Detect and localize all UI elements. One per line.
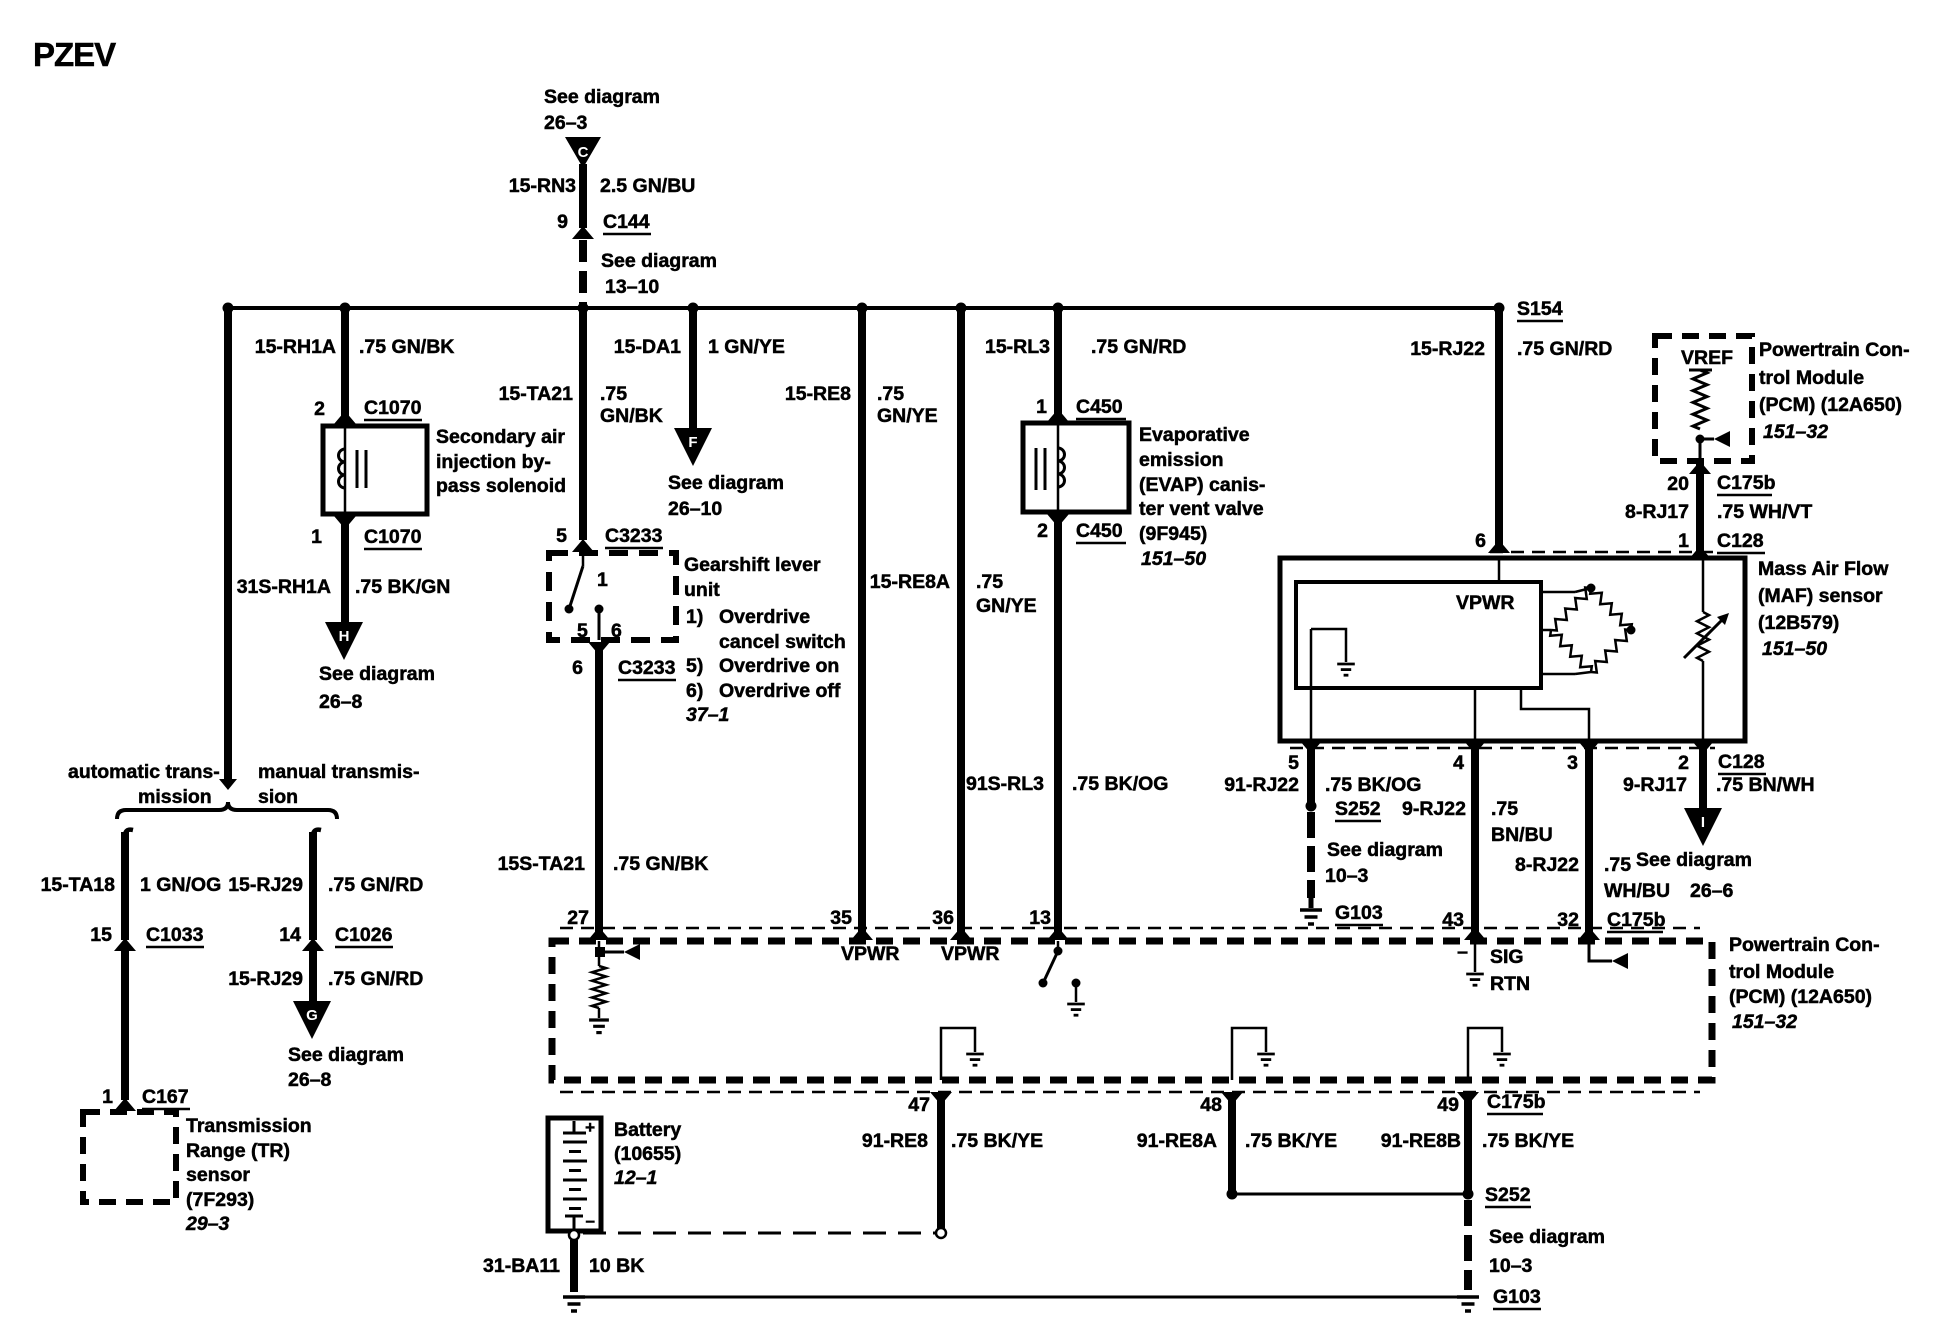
battery terminal node: [569, 1230, 579, 1240]
svg-text:C450: C450: [1076, 396, 1123, 418]
MAF pin 3 arrow: [1578, 741, 1600, 754]
svg-text:C128: C128: [1717, 530, 1764, 552]
pin 49 arrow: [1457, 1092, 1479, 1105]
svg-text:9-RJ22: 9-RJ22: [1402, 798, 1466, 820]
wire 8-RJ22: [1585, 748, 1593, 940]
MAF sensor box: [1280, 558, 1745, 741]
svg-text:S252: S252: [1485, 1184, 1531, 1206]
PCM pin49 loop: [1468, 1028, 1502, 1080]
svg-text:31S-RH1A: 31S-RH1A: [237, 576, 331, 598]
svg-text:1): 1): [686, 606, 703, 628]
PCM pin27 wire: [598, 941, 601, 966]
svg-text:14: 14: [279, 924, 301, 946]
svg-text:10 BK: 10 BK: [589, 1255, 644, 1277]
svg-text:.75 GN/RD: .75 GN/RD: [328, 968, 423, 990]
svg-text:26–3: 26–3: [544, 112, 588, 134]
svg-text:trol Module: trol Module: [1729, 961, 1834, 983]
svg-text:C1070: C1070: [364, 526, 422, 548]
svg-text:36: 36: [932, 907, 954, 929]
svg-text:See diagram: See diagram: [1636, 849, 1752, 871]
svg-text:1: 1: [311, 526, 322, 548]
svg-text:.75: .75: [1604, 854, 1631, 876]
connector arrow F: [674, 428, 712, 466]
wire S252 to G103 dashed: [1464, 1200, 1472, 1290]
battery plus terminal: [573, 1121, 576, 1133]
connector C167 arrow: [114, 1098, 136, 1111]
svg-text:.75: .75: [877, 383, 904, 405]
svg-text:injection by-: injection by-: [436, 451, 551, 473]
svg-text:BN/BU: BN/BU: [1491, 824, 1553, 846]
svg-text:6: 6: [611, 620, 622, 642]
wire 9-RJ22: [1471, 748, 1479, 940]
svg-text:–: –: [1457, 941, 1468, 963]
svg-text:I: I: [1701, 814, 1705, 831]
svg-text:pass solenoid: pass solenoid: [436, 475, 566, 497]
svg-text:Powertrain Con-: Powertrain Con-: [1729, 934, 1880, 956]
connector C144 arrow: [572, 226, 594, 239]
bus junction x=693: [688, 303, 699, 314]
svg-text:VPWR: VPWR: [941, 943, 1000, 965]
svg-text:31-BA11: 31-BA11: [483, 1255, 560, 1277]
gearshift switch lever: [570, 566, 583, 606]
svg-text:8-RJ17: 8-RJ17: [1625, 501, 1689, 523]
svg-text:(PCM) (12A650): (PCM) (12A650): [1759, 394, 1902, 416]
EVAP valve wire: [1057, 423, 1060, 512]
svg-text:37–1: 37–1: [686, 704, 729, 726]
pin 13 arrow: [1047, 927, 1069, 940]
svg-text:.75 BK/OG: .75 BK/OG: [1072, 773, 1168, 795]
svg-text:15-RH1A: 15-RH1A: [255, 336, 336, 358]
pin 27 arrow: [588, 927, 610, 940]
svg-text:151–32: 151–32: [1763, 421, 1828, 443]
svg-text:5: 5: [1288, 752, 1299, 774]
solenoid S1 wire: [344, 426, 347, 514]
svg-text:29–3: 29–3: [185, 1213, 230, 1235]
svg-text:S154: S154: [1517, 298, 1563, 320]
solenoid S1 core: [356, 450, 359, 488]
svg-text:5): 5): [686, 655, 703, 677]
svg-text:91-RE8: 91-RE8: [862, 1130, 928, 1152]
MAF pin3 wire inside: [1521, 688, 1589, 741]
MAF bridge bottom-left: [1550, 630, 1592, 672]
svg-text:15S-TA21: 15S-TA21: [498, 853, 586, 875]
svg-text:.75 GN/BK: .75 GN/BK: [613, 853, 708, 875]
connector C175b arrow: [1689, 461, 1711, 474]
MAF pin5 wire inside: [1310, 629, 1313, 741]
connector C450 arrow: [1047, 409, 1069, 422]
wire 15-RJ29: [309, 832, 317, 940]
svg-text:G: G: [306, 1007, 318, 1024]
PCM connector dashes top: [560, 927, 1700, 930]
gearshift pin6 wire: [598, 609, 601, 640]
svg-text:Transmission: Transmission: [186, 1115, 312, 1137]
pin 36 arrow: [950, 927, 972, 940]
svg-text:See diagram: See diagram: [1327, 839, 1443, 861]
MAF bridge dot right: [1627, 626, 1636, 635]
svg-text:.75 BN/WH: .75 BN/WH: [1716, 774, 1815, 796]
svg-text:49: 49: [1437, 1094, 1459, 1116]
svg-text:automatic trans-: automatic trans-: [68, 761, 220, 783]
svg-text:GN/BK: GN/BK: [600, 405, 663, 427]
battery box: [548, 1118, 601, 1231]
pin 43 arrow: [1464, 927, 1486, 940]
MAF bridge dot top: [1587, 584, 1596, 593]
svg-text:H: H: [339, 628, 350, 645]
svg-text:(7F293): (7F293): [186, 1189, 254, 1211]
svg-text:5: 5: [556, 525, 567, 547]
svg-text:C1026: C1026: [335, 924, 393, 946]
svg-text:C450: C450: [1076, 520, 1123, 542]
EVAP vent valve box: [1023, 423, 1129, 512]
svg-text:151–50: 151–50: [1762, 638, 1827, 660]
svg-text:C3233: C3233: [605, 525, 663, 547]
svg-text:15-RE8A: 15-RE8A: [870, 571, 950, 593]
gearshift contact 6: [595, 605, 604, 614]
VREF wire to pin 20: [1699, 439, 1702, 461]
bus junction x=345: [340, 303, 351, 314]
svg-text:3: 3: [1567, 752, 1578, 774]
svg-text:C3233: C3233: [618, 657, 676, 679]
wire 91-RE8A: [1228, 1092, 1236, 1192]
connector C triangle: [565, 137, 601, 168]
svg-text:manual transmis-: manual transmis-: [258, 761, 419, 783]
svg-text:1 GN/OG: 1 GN/OG: [140, 874, 221, 896]
PCM pin27 node: [595, 947, 605, 957]
svg-text:S252: S252: [1335, 798, 1381, 820]
MAF internal gnd wire: [1311, 629, 1346, 662]
PCM connector dashes bottom: [560, 1091, 1700, 1094]
svg-text:26–10: 26–10: [668, 498, 722, 520]
svg-text:See diagram: See diagram: [319, 663, 435, 685]
wire 15-RJ29 hook: [313, 830, 321, 838]
connector C128 dashed line: [1490, 551, 1715, 554]
svg-text:RTN: RTN: [1490, 973, 1530, 995]
svg-text:F: F: [688, 434, 697, 451]
svg-text:See diagram: See diagram: [288, 1044, 404, 1066]
MAF pin 5 arrow: [1300, 741, 1322, 754]
ground G103 (MAF): [1309, 898, 1314, 908]
svg-text:26–8: 26–8: [319, 691, 363, 713]
wire 8-RJ17: [1696, 463, 1704, 556]
MAF VPWR box: [1296, 582, 1541, 688]
pin 32 arrow: [1578, 927, 1600, 940]
ground bus wire: [585, 1296, 1457, 1299]
svg-text:13: 13: [1029, 907, 1051, 929]
wire 15-RE8A: [957, 308, 965, 940]
svg-text:2: 2: [1037, 520, 1048, 542]
MAF var resistor arrow: [1684, 617, 1725, 658]
bus wire: [228, 306, 1499, 310]
wire 15-RN3 (C to C144): [579, 164, 587, 228]
gearshift lever unit box: [549, 553, 676, 640]
svg-text:.75 GN/RD: .75 GN/RD: [1517, 338, 1612, 360]
wire 15-TA18 feed: [224, 308, 232, 779]
svg-text:C1070: C1070: [364, 397, 422, 419]
svg-text:13–10: 13–10: [605, 276, 659, 298]
svg-text:C128: C128: [1718, 751, 1765, 773]
svg-text:15-RJ29: 15-RJ29: [228, 968, 303, 990]
svg-text:6: 6: [1475, 530, 1486, 552]
svg-text:9: 9: [557, 211, 568, 233]
battery cells: [563, 1141, 587, 1144]
svg-text:sion: sion: [258, 786, 298, 808]
bus junction x=961: [956, 303, 967, 314]
svg-text:10–3: 10–3: [1325, 865, 1369, 887]
ground battery: [563, 1297, 585, 1311]
solenoid S1 box: [323, 426, 427, 514]
svg-text:91-RJ22: 91-RJ22: [1224, 774, 1299, 796]
wire 91-RJ22: [1307, 748, 1315, 804]
svg-text:151–50: 151–50: [1141, 548, 1206, 570]
svg-text:C175b: C175b: [1487, 1091, 1546, 1113]
connector C3233 arrow low: [588, 642, 610, 655]
svg-text:.75 GN/RD: .75 GN/RD: [1091, 336, 1186, 358]
PCM pin27 gnd: [598, 1008, 601, 1018]
wire 15-RH1A: [341, 308, 349, 424]
bus junction x=862: [857, 303, 868, 314]
svg-text:Powertrain Con-: Powertrain Con-: [1759, 339, 1910, 361]
VREF node dot: [1696, 435, 1705, 444]
wire 91-RE8B: [1464, 1092, 1472, 1192]
MAF pin2 wire inside: [1702, 558, 1705, 612]
bus junction x=1499: [1494, 303, 1505, 314]
svg-text:cancel switch: cancel switch: [719, 631, 846, 653]
svg-text:20: 20: [1667, 473, 1689, 495]
svg-text:2.5 GN/BU: 2.5 GN/BU: [600, 175, 695, 197]
gearshift switch stub: [582, 553, 585, 566]
bus junction x=1058: [1053, 303, 1064, 314]
wire 15-RE8: [858, 308, 866, 940]
svg-text:C175b: C175b: [1717, 472, 1776, 494]
svg-text:.75 BK/GN: .75 BK/GN: [355, 576, 450, 598]
svg-text:27: 27: [567, 907, 589, 929]
PCM pin13 stub: [1057, 941, 1060, 950]
wire 15-RJ29 lower: [309, 950, 317, 1001]
connector arrow I: [1684, 808, 1722, 846]
svg-text:WH/BU: WH/BU: [1604, 880, 1670, 902]
MAF bridge bottom-right: [1591, 630, 1631, 673]
VREF resistor: [1693, 370, 1707, 429]
wire 15-TA18: [121, 832, 129, 940]
svg-text:12–1: 12–1: [614, 1167, 657, 1189]
svg-text:Mass Air Flow: Mass Air Flow: [1758, 558, 1889, 580]
svg-text:91-RE8B: 91-RE8B: [1381, 1130, 1461, 1152]
svg-text:35: 35: [830, 907, 852, 929]
svg-text:.75: .75: [976, 571, 1003, 593]
PCM VREF box: [1655, 336, 1752, 461]
svg-text:1: 1: [1036, 396, 1047, 418]
svg-text:C: C: [578, 144, 589, 161]
svg-text:C167: C167: [142, 1086, 189, 1108]
svg-text:See diagram: See diagram: [544, 86, 660, 108]
PCM pin13 contact: [1072, 979, 1081, 988]
PCM pin47 loop: [941, 1028, 975, 1080]
svg-text:1: 1: [102, 1086, 113, 1108]
connector C1070 arrow low: [334, 516, 356, 529]
MAF bridge top-right: [1590, 588, 1632, 630]
pin 35 arrow: [851, 927, 873, 940]
svg-text:.75 WH/VT: .75 WH/VT: [1717, 501, 1812, 523]
wire 9-RJ17: [1699, 748, 1707, 808]
svg-text:5: 5: [577, 620, 588, 642]
svg-text:15-RN3: 15-RN3: [509, 175, 576, 197]
connector arrow G: [293, 1001, 331, 1039]
svg-text:8-RJ22: 8-RJ22: [1515, 854, 1579, 876]
bus junction x=228: [223, 303, 234, 314]
svg-text:10–3: 10–3: [1489, 1255, 1533, 1277]
svg-text:mission: mission: [138, 786, 212, 808]
svg-text:(EVAP) canis-: (EVAP) canis-: [1139, 474, 1265, 496]
svg-text:Overdrive off: Overdrive off: [719, 680, 841, 702]
MAF pin6 wire inside: [1498, 558, 1501, 582]
svg-text:Secondary air: Secondary air: [436, 426, 565, 448]
svg-text:SIG: SIG: [1490, 946, 1524, 968]
svg-text:47: 47: [908, 1094, 930, 1116]
connector arrow H: [325, 622, 363, 660]
svg-text:15: 15: [90, 924, 112, 946]
pin 6 arrow: [1488, 540, 1510, 553]
svg-text:emission: emission: [1139, 449, 1224, 471]
svg-text:VPWR: VPWR: [841, 943, 900, 965]
svg-text:15-DA1: 15-DA1: [614, 336, 681, 358]
MAF bottom connector dashes: [1290, 747, 1715, 750]
svg-text:(MAF) sensor: (MAF) sensor: [1758, 585, 1883, 607]
svg-text:151–32: 151–32: [1732, 1011, 1797, 1033]
wire 31S-RH1A: [341, 516, 349, 622]
svg-text:15-TA18: 15-TA18: [41, 874, 116, 896]
svg-text:.75 BK/YE: .75 BK/YE: [1482, 1130, 1574, 1152]
MAF pin 4 arrow: [1464, 741, 1486, 754]
PCM pin13 switch lever: [1044, 951, 1058, 981]
svg-text:GN/YE: GN/YE: [877, 405, 938, 427]
svg-text:GN/YE: GN/YE: [976, 595, 1037, 617]
battery minus terminal: [565, 1215, 583, 1218]
svg-text:15-RE8: 15-RE8: [785, 383, 851, 405]
svg-text:Evaporative: Evaporative: [1139, 424, 1250, 446]
wire 15-RJ22: [1495, 308, 1503, 553]
MAF pin 2 arrow: [1692, 741, 1714, 754]
svg-text:VPWR: VPWR: [1456, 592, 1515, 614]
wire 15-TA21: [579, 308, 587, 540]
pin 48 arrow: [1221, 1092, 1243, 1105]
svg-text:4: 4: [1453, 752, 1464, 774]
svg-text:See diagram: See diagram: [601, 250, 717, 272]
VREF resistor top bar: [1689, 369, 1712, 372]
connector C1070 arrow: [334, 411, 356, 424]
svg-text:(12B579): (12B579): [1758, 612, 1839, 634]
VREF signal arrow: [1700, 438, 1714, 441]
wire C144 to bus (dashed): [579, 240, 587, 308]
svg-text:(9F945): (9F945): [1139, 523, 1207, 545]
PCM pin48 loop: [1232, 1028, 1266, 1080]
svg-text:91-RE8A: 91-RE8A: [1137, 1130, 1217, 1152]
wire S252 link: [1232, 1193, 1468, 1196]
wire 15S-TA21: [595, 642, 603, 940]
svg-text:ter vent valve: ter vent valve: [1139, 498, 1264, 520]
svg-text:26–6: 26–6: [1690, 880, 1734, 902]
wire 15-TA18 lower: [121, 950, 129, 1100]
svg-text:26–8: 26–8: [288, 1069, 332, 1091]
wire 15-DA1: [689, 308, 697, 428]
wire 15-TA18 hook: [125, 830, 133, 838]
PCM box: [552, 941, 1712, 1080]
svg-text:See diagram: See diagram: [1489, 1226, 1605, 1248]
svg-text:15-RJ29: 15-RJ29: [228, 874, 303, 896]
EVAP valve core: [1035, 448, 1038, 490]
svg-text:Overdrive: Overdrive: [719, 606, 810, 628]
svg-text:6): 6): [686, 680, 703, 702]
TR sensor box: [83, 1112, 176, 1202]
node S252 dot 3: [1463, 1189, 1474, 1200]
svg-text:VREF: VREF: [1681, 347, 1733, 369]
svg-text:91S-RL3: 91S-RL3: [966, 773, 1044, 795]
svg-text:.75: .75: [1491, 798, 1518, 820]
svg-text:trol Module: trol Module: [1759, 367, 1864, 389]
connector C450 arrow low: [1047, 514, 1069, 527]
svg-text:.75 GN/RD: .75 GN/RD: [328, 874, 423, 896]
svg-text:G103: G103: [1493, 1286, 1541, 1308]
svg-text:+: +: [585, 1118, 595, 1137]
svg-text:15-RL3: 15-RL3: [985, 336, 1050, 358]
svg-text:G103: G103: [1335, 902, 1383, 924]
svg-text:.75 BK/YE: .75 BK/YE: [1245, 1130, 1337, 1152]
svg-text:.75 BK/OG: .75 BK/OG: [1325, 774, 1421, 796]
svg-text:15-TA21: 15-TA21: [499, 383, 574, 405]
svg-text:Overdrive on: Overdrive on: [719, 655, 839, 677]
connector C3233 arrow: [572, 539, 594, 552]
wire 91S-RL3: [1054, 514, 1062, 940]
svg-text:–: –: [586, 1211, 595, 1230]
svg-text:See diagram: See diagram: [668, 472, 784, 494]
svg-text:.75 GN/BK: .75 GN/BK: [359, 336, 454, 358]
MAF bridge stub top: [1541, 591, 1575, 594]
svg-text:1: 1: [1678, 530, 1689, 552]
wire feed end arrow: [219, 779, 237, 790]
PCM pin27 signal arrow: [604, 951, 624, 954]
wire 91-RE8: [937, 1092, 945, 1228]
svg-text:1 GN/YE: 1 GN/YE: [708, 336, 785, 358]
node battery junction: [936, 1228, 946, 1238]
MAF pin4 wire inside: [1474, 688, 1477, 741]
MAF bridge top-left: [1551, 588, 1591, 631]
wire to G103 dashed: [1307, 812, 1315, 898]
connector C1026 arrow: [302, 938, 324, 951]
wire 15-RL3: [1054, 308, 1062, 421]
wire 31-BA11: [570, 1240, 578, 1292]
node S252 dot: [1306, 801, 1317, 812]
svg-text:(10655): (10655): [614, 1143, 681, 1165]
svg-text:unit: unit: [684, 579, 720, 601]
PCM pin13 gnd: [1067, 1004, 1085, 1015]
svg-text:Range (TR): Range (TR): [186, 1140, 290, 1162]
pin 47 arrow: [930, 1092, 952, 1105]
PCM pin32 signal arrow: [1589, 941, 1612, 961]
svg-text:C144: C144: [603, 211, 650, 233]
MAF bridge stub bottom: [1541, 673, 1575, 676]
svg-text:2: 2: [314, 398, 325, 420]
svg-text:PZEV: PZEV: [33, 36, 116, 73]
bus junction x=583: [578, 303, 589, 314]
svg-text:Gearshift lever: Gearshift lever: [684, 554, 821, 576]
brace transmission split: [117, 802, 337, 819]
battery negative dashed wire: [583, 1232, 935, 1235]
svg-text:Battery: Battery: [614, 1119, 681, 1141]
PCM pin27 resistor: [592, 966, 606, 1008]
svg-text:.75 BK/YE: .75 BK/YE: [951, 1130, 1043, 1152]
svg-text:(PCM) (12A650): (PCM) (12A650): [1729, 986, 1872, 1008]
svg-text:15-RJ22: 15-RJ22: [1410, 338, 1485, 360]
svg-text:1: 1: [597, 569, 608, 591]
